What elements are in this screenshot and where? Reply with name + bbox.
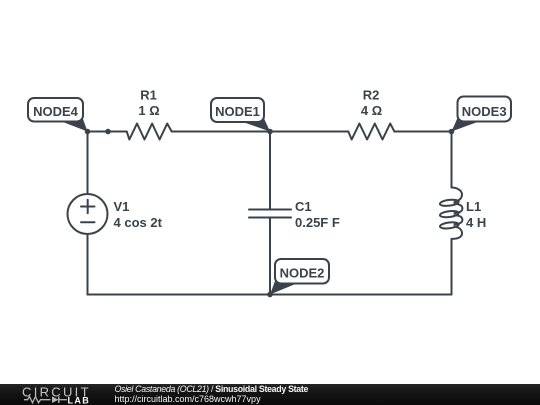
svg-text:R2: R2 <box>363 87 380 102</box>
wire middle vertical upper <box>269 132 271 210</box>
capacitor C1 <box>249 210 291 218</box>
label V1 value <box>114 199 163 230</box>
node NODE1 callout <box>211 98 270 132</box>
inductor L1 <box>440 188 463 239</box>
svg-text:R1: R1 <box>140 87 157 102</box>
CircuitLab logo <box>0 383 110 405</box>
voltage source V1 <box>68 194 108 234</box>
svg-text:V1: V1 <box>114 199 130 214</box>
footer text <box>115 384 309 405</box>
svg-text:LAB: LAB <box>68 395 91 405</box>
footer bar <box>0 384 540 405</box>
wire bottom <box>88 294 452 296</box>
wire R2 to NODE3 <box>394 131 451 133</box>
svg-text:1 Ω: 1 Ω <box>138 103 159 118</box>
node NODE2 callout <box>270 259 329 295</box>
label C1 value <box>295 199 340 230</box>
svg-text:0.25F F: 0.25F F <box>295 215 340 230</box>
svg-text:4 H: 4 H <box>466 215 486 230</box>
junction dot node1 <box>267 129 273 135</box>
wire right vertical lower <box>451 239 453 295</box>
svg-text:NODE2: NODE2 <box>280 266 325 281</box>
wire left vertical lower <box>87 234 89 295</box>
svg-text:4 cos 2t: 4 cos 2t <box>114 215 163 230</box>
wire right vertical upper <box>451 132 453 188</box>
node NODE4 callout <box>28 98 88 132</box>
wire top segment NODE4 to R1 <box>88 131 127 133</box>
wire middle vertical lower <box>269 218 271 295</box>
junction dot aux <box>105 129 111 135</box>
label R1 value <box>138 87 159 118</box>
svg-text:NODE3: NODE3 <box>462 104 507 119</box>
svg-text:NODE4: NODE4 <box>33 104 79 119</box>
junction dot node4 <box>85 129 91 135</box>
junction dot node2 <box>267 292 273 298</box>
wire R1 to R2 through NODE1 <box>172 131 349 133</box>
svg-text:NODE1: NODE1 <box>215 104 260 119</box>
svg-text:L1: L1 <box>466 199 481 214</box>
junction dot node3 <box>449 129 455 135</box>
svg-text:4 Ω: 4 Ω <box>361 103 382 118</box>
wire left vertical upper <box>87 132 89 195</box>
resistor R2 <box>348 124 394 140</box>
resistor R1 <box>127 124 172 140</box>
node NODE3 callout <box>452 97 512 132</box>
label R2 value <box>361 87 382 118</box>
label L1 value <box>466 199 486 230</box>
svg-text:C1: C1 <box>295 199 312 214</box>
